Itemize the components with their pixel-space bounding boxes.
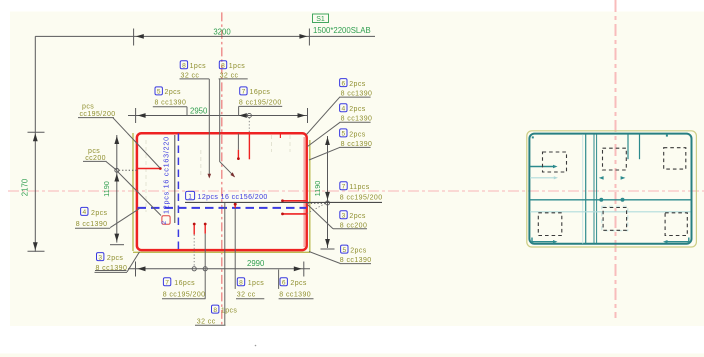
- svg-text:12pcs 16 cc156/200: 12pcs 16 cc156/200: [198, 194, 268, 201]
- svg-text:2pcs: 2pcs: [350, 248, 367, 255]
- svg-text:3: 3: [342, 212, 346, 219]
- dimension 2990 bottom line: [128, 262, 310, 277]
- rebar red stub x=238: [237, 150, 239, 159]
- leader vertical bottom: x=224.8: [224, 203, 226, 326]
- callout 3 (right): [333, 211, 367, 230]
- callout 6 (right top): [340, 79, 373, 98]
- svg-text:8 cc1390: 8 cc1390: [96, 265, 128, 272]
- bottom cream strip: [0, 354, 704, 357]
- node circle on 2950 line: [247, 113, 251, 117]
- svg-text:1: 1: [188, 193, 192, 200]
- svg-text:2pcs: 2pcs: [107, 255, 124, 262]
- svg-text:8: 8: [213, 307, 217, 314]
- top stub vertical 1: [627, 135, 629, 160]
- svg-text:8 cc195/200: 8 cc195/200: [163, 291, 206, 298]
- svg-text:8 cc1390: 8 cc1390: [341, 141, 373, 148]
- S1 tag: [313, 14, 329, 23]
- callout 7 (right middle, 11pcs): [340, 182, 383, 202]
- dimension 2950 line: [128, 108, 308, 123]
- callout 5 (right): [340, 129, 373, 148]
- rebar red stub small x=280: [279, 134, 281, 139]
- label-1 / label-U shared underline: [185, 201, 382, 203]
- leader vertical bottom: x=278.6: [278, 270, 280, 289]
- olive offset rect: [527, 131, 697, 247]
- svg-text:11pcs: 11pcs: [349, 184, 369, 191]
- blue label 2 rotated text: [162, 216, 170, 225]
- from pcs cc195/200 to red bar end: [113, 118, 160, 168]
- blue dashed horizontal (label 1 axis): [138, 207, 307, 209]
- svg-text:2950: 2950: [190, 107, 208, 116]
- callout 5 (top): [153, 87, 187, 107]
- rebar red stubs rising from bottom edge: [193, 224, 195, 235]
- label 5 bottom-left leader: [95, 270, 127, 272]
- svg-text:2pcs: 2pcs: [349, 106, 366, 113]
- svg-text:cc200: cc200: [85, 155, 106, 162]
- tick on top edge: [666, 135, 668, 137]
- callout 8 (bottom row): [236, 278, 264, 299]
- teal slab outline: [529, 134, 691, 244]
- arrow 2170 top: [33, 133, 38, 141]
- svg-text:7: 7: [242, 89, 246, 96]
- svg-text:5: 5: [157, 89, 161, 96]
- red stub with dot at x=235 above blue line: [234, 204, 236, 208]
- top-left rebar mark with arrow: [530, 166, 555, 168]
- svg-text:6: 6: [341, 80, 345, 87]
- olive offset line bottom of slab: [133, 251, 310, 253]
- svg-text:8: 8: [182, 63, 186, 70]
- svg-text:2pcs: 2pcs: [349, 213, 366, 220]
- svg-text:1500*2200SLAB: 1500*2200SLAB: [313, 26, 371, 35]
- svg-text:4: 4: [82, 209, 86, 216]
- svg-text:1pcs: 1pcs: [248, 280, 265, 287]
- slab outline (red rounded rect): [137, 133, 307, 250]
- node circles on 2990 line: [192, 267, 196, 271]
- stray dot bottom: [255, 345, 257, 347]
- dashed square BR: [665, 213, 687, 236]
- centerline horizontal (long pink axis): [8, 190, 704, 192]
- light teal vertical: [582, 135, 584, 244]
- svg-text:7: 7: [165, 280, 169, 287]
- svg-text:8: 8: [221, 63, 225, 70]
- rebar red horizontals near right edge: [282, 200, 306, 202]
- svg-text:1190: 1190: [102, 181, 111, 197]
- svg-text:6: 6: [282, 280, 286, 287]
- centerline vertical (slab axis): [221, 12, 223, 325]
- bottom-left hook: [532, 238, 555, 242]
- dotted connector right edge to 1190 node: [307, 203, 326, 213]
- from junction to label2 box: [117, 171, 161, 216]
- dimension 1190 left vertical: [110, 135, 124, 245]
- svg-text:2pcs: 2pcs: [91, 210, 108, 217]
- interior teal vertical 2 (double): [593, 135, 595, 244]
- dimension 3200 top line: [28, 29, 376, 252]
- top-left light teal mark: [530, 177, 556, 179]
- to label 3 right (8 cc200): [308, 205, 334, 229]
- interior teal horizontal (main): [530, 199, 691, 201]
- svg-text:1pcs: 1pcs: [229, 63, 246, 70]
- svg-text:8 cc1390: 8 cc1390: [340, 257, 372, 264]
- rebar red stub x=249.4: [248, 134, 250, 160]
- svg-text:2990: 2990: [247, 259, 265, 268]
- dimension 1190 right vertical: [321, 136, 335, 249]
- arrow 2170 bottom: [33, 242, 38, 250]
- svg-text:7: 7: [342, 184, 346, 191]
- callout 6 (bottom): [279, 278, 314, 299]
- dashed square BM: [603, 208, 627, 231]
- top stub vertical 2: [639, 135, 641, 160]
- svg-text:2170: 2170: [21, 178, 30, 196]
- svg-text:2pcs: 2pcs: [349, 131, 366, 138]
- blue dashed vertical (label 2 axis): [177, 134, 179, 250]
- light teal horizontal: [530, 211, 691, 213]
- svg-text:12pcs 16 cc163/220: 12pcs 16 cc163/220: [162, 136, 171, 214]
- dotted connector junction to slab (left): [119, 169, 137, 171]
- svg-text:8 cc1390: 8 cc1390: [76, 221, 108, 228]
- svg-text:S1: S1: [316, 16, 325, 23]
- callout 8 (lowest): [195, 305, 237, 325]
- svg-text:2pcs: 2pcs: [290, 280, 307, 287]
- svg-text:3200: 3200: [213, 28, 231, 37]
- svg-text:2pcs: 2pcs: [349, 81, 366, 88]
- leader verticals from top labels: [187, 79, 239, 177]
- from pcs cc200 to junction: [106, 162, 117, 171]
- centerline vertical (right plan axis): [615, 0, 617, 318]
- svg-text:32 cc: 32 cc: [220, 72, 239, 79]
- svg-text:1pcs: 1pcs: [221, 308, 238, 315]
- callout 4 (left): [75, 207, 110, 228]
- svg-text:8 cc1390: 8 cc1390: [279, 291, 311, 298]
- svg-text:5: 5: [341, 131, 345, 138]
- olive offset line right of slab: [309, 140, 311, 252]
- svg-text:8 cc1390: 8 cc1390: [341, 116, 373, 123]
- svg-text:8 cc195/200: 8 cc195/200: [340, 195, 383, 202]
- svg-text:8 cc195/200: 8 cc195/200: [239, 99, 282, 106]
- leader end arrows: [208, 174, 212, 179]
- dashed square TR: [664, 148, 686, 169]
- svg-text:3: 3: [98, 254, 102, 261]
- svg-text:8 cc1390: 8 cc1390: [155, 99, 187, 106]
- small arrows mid: [599, 176, 604, 180]
- callout 5 (bottom right): [340, 245, 372, 264]
- callout 8 (top, second): [219, 61, 248, 80]
- dashed square TM: [603, 148, 627, 170]
- extra arrow at x=238 on 2950 line: [239, 113, 247, 118]
- arrow 3200 right: [299, 34, 307, 39]
- svg-text:pcs: pcs: [82, 104, 94, 111]
- light teal dashed square (behind BM): [602, 206, 628, 231]
- pink inner line along right edge: [303, 137, 305, 247]
- interior teal vertical 1: [585, 135, 587, 244]
- to label 5 bottom right: [309, 252, 340, 264]
- svg-text:8 cc200: 8 cc200: [340, 222, 367, 229]
- dotted connector from 2950 node down to slab: [248, 118, 250, 133]
- svg-text:32 cc: 32 cc: [181, 72, 200, 79]
- callout 3 (left bottom): [95, 253, 128, 273]
- callout 7 (bottom): [162, 278, 206, 299]
- leader vertical bottom: x=235.2: [234, 209, 236, 289]
- svg-text:8: 8: [239, 280, 243, 287]
- svg-text:16pcs: 16pcs: [174, 280, 195, 287]
- svg-text:1pcs: 1pcs: [190, 63, 207, 70]
- svg-text:2: 2: [161, 221, 168, 225]
- dots on horizontal: [599, 198, 603, 202]
- dotted vertical from bottom rebar to 2990 node: [193, 235, 195, 267]
- leader vertical bottom: x=205: [204, 234, 206, 299]
- svg-text:pcs: pcs: [88, 148, 100, 155]
- olive offset line left of slab: [132, 133, 134, 251]
- svg-text:32 cc: 32 cc: [197, 319, 216, 326]
- bottom-right hook: [666, 238, 689, 242]
- from label 3 to slab corner: [127, 252, 140, 272]
- dashed square TL: [543, 152, 567, 172]
- callout 8 (top, first): [180, 61, 210, 80]
- callout 7 (top): [239, 87, 283, 107]
- dashed square BL: [538, 213, 562, 236]
- svg-text:2pcs: 2pcs: [165, 89, 182, 96]
- svg-text:cc195/200: cc195/200: [80, 111, 116, 118]
- leader diagonals left side: [95, 97, 340, 272]
- svg-text:16pcs: 16pcs: [250, 89, 271, 96]
- rebar red horizontal at left (y=168.5): [137, 168, 160, 170]
- callout 4 (right): [340, 104, 373, 123]
- svg-text:4: 4: [341, 105, 345, 112]
- svg-text:8 cc1390: 8 cc1390: [341, 91, 373, 98]
- from label 4 to blue line left end: [110, 209, 139, 228]
- blue label 1 text: [186, 191, 195, 199]
- arrow 3200 left: [136, 34, 144, 39]
- right side fan to labels 6/4/5: [307, 97, 341, 135]
- faint dashed construction lines inside slab: [146, 135, 290, 212]
- corner tick top-left: [532, 136, 534, 138]
- svg-text:32 cc: 32 cc: [237, 291, 256, 298]
- svg-text:5: 5: [342, 247, 346, 254]
- svg-text:1190: 1190: [313, 181, 322, 197]
